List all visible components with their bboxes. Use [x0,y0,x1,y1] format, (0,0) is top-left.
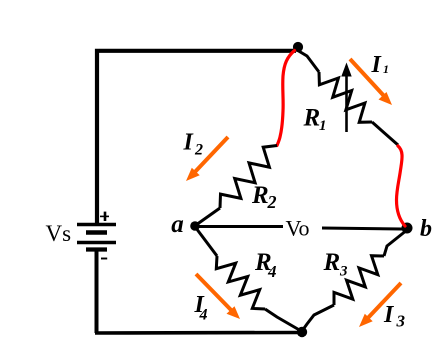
wire top (node to top-left corner) [99,49,296,53]
svg-text:4: 4 [199,307,208,324]
battery plus sign [100,212,109,221]
svg-text:2: 2 [267,192,277,212]
svg-text:R: R [323,249,341,276]
node top junction [293,42,303,52]
wire lead node b to R3 [384,230,407,256]
current arrow I1 [350,59,392,105]
wire lead R3 to bottom node [302,305,334,331]
svg-text:1: 1 [383,62,389,76]
svg-text:1: 1 [319,118,327,134]
svg-text:3: 3 [396,312,406,331]
battery Vs plate long top [77,223,116,226]
wire left side lower (battery - down to bottom corner) [95,249,99,333]
wire lead R4 to bottom node [265,309,302,332]
current arrow I4 [196,274,240,319]
wire red right (to node b) [397,146,406,226]
svg-text:Vo: Vo [286,216,310,241]
battery minus sign [101,258,107,260]
wire red left (top node to R2) [277,51,295,146]
battery plate long bottom [77,241,116,245]
wire lead from R1 to red segment [372,122,398,145]
svg-text:a: a [171,211,184,238]
arrow through R1 (variable) [345,72,348,132]
svg-text:3: 3 [339,264,348,280]
svg-text:4: 4 [267,262,277,281]
svg-text:b: b [420,216,432,242]
resistor R3 zigzag [334,256,384,305]
svg-text:I: I [383,302,395,328]
wire left side (corner down to battery +) [95,49,99,224]
current arrow I2 [186,137,228,181]
resistor R2 zigzag [220,146,277,209]
resistor R4 zigzag [216,256,265,309]
wire bottom (corner to bottom node) [95,331,301,335]
wire lead R2 to node a [196,208,220,225]
svg-text:Vs: Vs [46,221,72,246]
node bottom junction [297,327,307,337]
battery short plate 2 [86,247,107,251]
svg-text:R: R [251,182,269,209]
wire Vo right segment [322,228,402,229]
svg-text:I: I [371,52,383,78]
svg-text:R: R [303,105,321,132]
node b [402,223,413,234]
svg-text:2: 2 [194,142,203,159]
svg-text:I: I [183,129,195,155]
wire lead node a to R4 [196,228,217,256]
wire lead from top node to R1 [297,50,319,72]
wire Vo left segment [199,225,283,228]
node a [190,221,200,231]
battery short plate 1 [86,230,107,235]
current arrow I3 [359,283,401,327]
resistor R1 zigzag [319,72,372,122]
